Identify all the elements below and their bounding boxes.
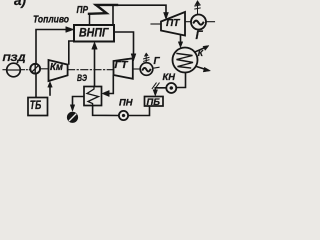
- svg-text:ПТ: ПТ: [166, 18, 180, 29]
- svg-text:ТБ: ТБ: [30, 100, 42, 112]
- svg-text:К: К: [198, 48, 204, 58]
- svg-text:ПБ: ПБ: [147, 97, 161, 108]
- svg-text:ВНПГ: ВНПГ: [79, 28, 109, 40]
- svg-text:Топливо: Топливо: [33, 15, 69, 26]
- svg-text:Г: Г: [196, 30, 204, 42]
- svg-text:а): а): [14, 0, 27, 8]
- svg-text:ВЭ: ВЭ: [77, 73, 87, 84]
- svg-text:Км: Км: [50, 62, 64, 73]
- svg-text:ПН: ПН: [119, 98, 134, 109]
- svg-text:КН: КН: [163, 72, 177, 83]
- svg-text:ПР: ПР: [77, 5, 89, 16]
- svg-text:ПЗД: ПЗД: [3, 53, 26, 64]
- svg-text:ГТ: ГТ: [115, 60, 129, 71]
- svg-text:Г: Г: [154, 56, 161, 67]
